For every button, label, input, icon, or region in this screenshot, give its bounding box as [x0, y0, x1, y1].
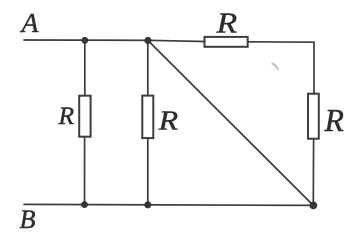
node dot bottom-left junction: [81, 201, 88, 208]
wire top rail right of resistor: [248, 41, 314, 43]
wire diagonal: [149, 41, 313, 205]
wire right vertical: [313, 42, 315, 93]
node dot top-left junction: [81, 37, 88, 44]
resistor R2 body (middle vertical): [142, 96, 153, 139]
node dot top-middle junction: [144, 37, 151, 44]
wire middle branch lower: [147, 138, 149, 205]
node dot bottom-right junction: [309, 202, 317, 210]
wire left branch lower: [84, 137, 86, 205]
resistor R4 body (right vertical): [308, 94, 319, 139]
resistor R3 body (top horizontal): [205, 37, 248, 47]
wire right vertical lower: [312, 139, 314, 205]
wire left branch upper: [84, 40, 86, 95]
wire middle branch upper: [147, 40, 149, 95]
svg-text:R: R: [216, 8, 238, 39]
svg-text:R: R: [58, 101, 75, 130]
wire bottom B rail: [24, 204, 313, 205]
wire top A rail: [24, 40, 204, 42]
svg-text:A: A: [20, 8, 40, 39]
smudge artifact: [273, 64, 279, 70]
node dot bottom-middle junction: [144, 201, 151, 208]
svg-text:R: R: [324, 103, 344, 138]
svg-text:R: R: [158, 105, 179, 135]
svg-text:B: B: [20, 205, 36, 234]
resistor R1 body (left vertical): [79, 96, 90, 137]
